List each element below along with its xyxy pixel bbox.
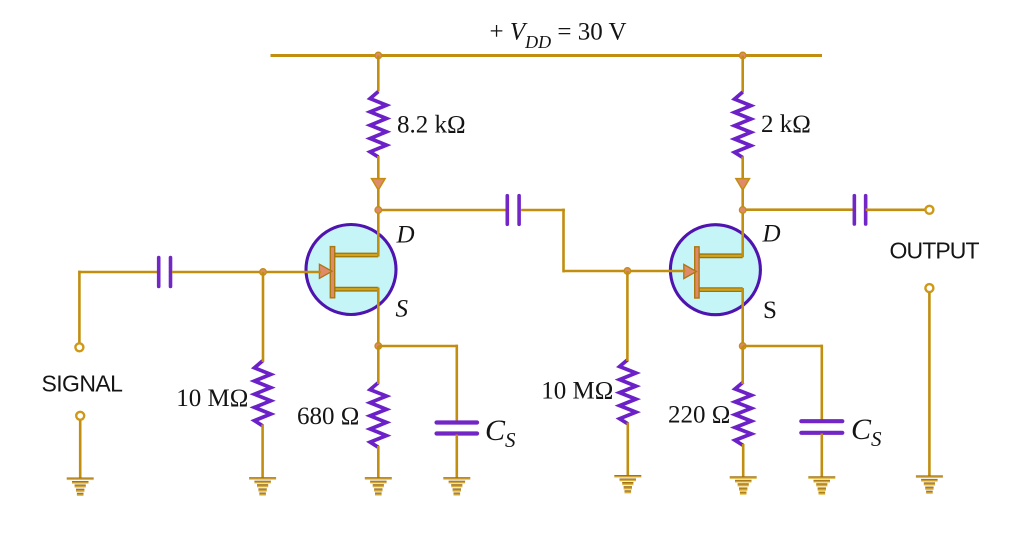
ground: signal xyxy=(67,478,94,497)
wire: gate node to R2 xyxy=(262,272,265,362)
Q1 gate bar xyxy=(330,247,334,298)
arrow: drain current into Q1 xyxy=(372,179,386,190)
Q2 gate arrow xyxy=(684,264,697,278)
Q2 source lead xyxy=(699,287,742,292)
wire: C1 to gate node xyxy=(172,271,263,274)
ground: R5 xyxy=(614,475,641,494)
wire: Q1 source down xyxy=(377,288,380,347)
Q1 source lead xyxy=(335,287,378,292)
transistor Q1 body xyxy=(306,225,396,315)
node: gate junction stage 2 xyxy=(624,268,631,275)
svg-text:2 kΩ: 2 kΩ xyxy=(761,111,811,138)
wire: source node to R3 xyxy=(377,346,380,384)
ground: R6 xyxy=(730,476,757,495)
wire: arrow to drain node xyxy=(377,188,380,210)
wire: source node to R6 xyxy=(741,346,744,384)
node: gate junction stage 1 xyxy=(260,269,267,276)
wire: CS1 branch down xyxy=(455,345,458,421)
svg-text:+ VDD = 30 V: + VDD = 30 V xyxy=(490,19,627,52)
svg-text:D: D xyxy=(396,222,415,249)
ground: R2 xyxy=(249,477,276,496)
resistor R6 220 Ohm source stage 2 xyxy=(735,382,751,445)
resistor R5 10 MOhm gate stage 2 xyxy=(620,360,636,424)
svg-text:680 Ω: 680 Ω xyxy=(297,403,359,430)
capacitor C4 output coupling xyxy=(853,196,857,224)
node: rail junction stage 2 xyxy=(739,52,746,59)
wire: R1 to arrow xyxy=(377,156,380,179)
wire: CS2 to ground xyxy=(820,434,823,478)
terminal: output bottom xyxy=(925,284,933,292)
transistor Q2 body xyxy=(670,225,760,315)
wire: input corner horizontal xyxy=(78,271,157,274)
wire: drain node to output cap xyxy=(743,208,853,211)
wire: drain node to coupling cap C2 xyxy=(378,209,505,212)
wire: C4 to output terminal xyxy=(866,209,925,212)
wire: CS1 to ground xyxy=(455,435,458,479)
wire: corner to gate node stage 2 xyxy=(564,270,628,273)
svg-text:10 MΩ: 10 MΩ xyxy=(541,377,613,404)
wire: Q2 source down xyxy=(741,288,744,346)
wire: gate node to Q2 gate xyxy=(627,270,685,273)
wire: R5 to ground xyxy=(626,423,629,477)
terminal: signal input top xyxy=(75,343,83,351)
node: drain junction dot Q2 xyxy=(739,207,746,214)
wire: R2 to ground xyxy=(261,425,264,479)
wire: drain node to Q1 drain xyxy=(377,210,380,257)
svg-text:OUTPUT: OUTPUT xyxy=(890,238,980,264)
wire: rail to R1 xyxy=(377,56,380,92)
wire: CS2 branch down xyxy=(820,345,823,420)
ground: CS2 xyxy=(808,476,835,495)
wire: source node to CS2 xyxy=(743,345,822,348)
svg-text:S: S xyxy=(396,296,409,323)
wire: output bottom to ground xyxy=(928,293,931,476)
resistor R1 8.2 kOhm xyxy=(370,92,386,158)
wire: gate node to Q1 gate xyxy=(263,271,321,274)
capacitor CS1 source bypass xyxy=(437,420,478,424)
svg-text:D: D xyxy=(762,221,781,248)
ground: R3 xyxy=(365,477,392,496)
Q1 drain lead xyxy=(335,253,378,258)
wire: corner down to gate level xyxy=(562,209,565,273)
wire: source node to CS1 xyxy=(378,345,457,348)
wire: input vertical xyxy=(78,271,81,343)
wire: R3 to ground xyxy=(377,446,380,478)
node: source junction Q1 xyxy=(375,343,382,350)
terminal: output top xyxy=(925,206,933,214)
svg-text:220 Ω: 220 Ω xyxy=(668,402,730,429)
wire: signal bottom to ground xyxy=(79,421,82,479)
capacitor C2 interstage coupling xyxy=(505,196,509,225)
terminal: signal input bottom xyxy=(76,412,84,420)
resistor R4 2 kOhm xyxy=(735,92,751,158)
wire: rail to R4 xyxy=(741,56,744,93)
wire: drain node to Q2 drain xyxy=(741,210,744,257)
ground: output xyxy=(916,475,943,494)
capacitor C1 input coupling xyxy=(157,258,161,287)
node: drain junction dot Q1 xyxy=(375,207,382,214)
svg-text:S: S xyxy=(763,297,777,324)
node: rail junction stage 1 xyxy=(375,52,382,59)
wire: R6 to ground xyxy=(742,444,745,477)
resistor R2 10 MOhm gate stage 1 xyxy=(254,361,270,426)
svg-text:8.2 kΩ: 8.2 kΩ xyxy=(397,111,466,138)
Q2 gate bar xyxy=(695,247,699,298)
svg-text:CS: CS xyxy=(851,413,882,451)
svg-text:10 MΩ: 10 MΩ xyxy=(176,385,248,412)
svg-text:CS: CS xyxy=(485,414,516,452)
arrow: drain current into Q2 xyxy=(736,179,750,190)
wire: +VDD power rail xyxy=(271,54,823,57)
wire: arrow to drain node stage 2 xyxy=(741,188,744,210)
svg-text:SIGNAL: SIGNAL xyxy=(42,370,124,396)
resistor R3 680 Ohm source stage 1 xyxy=(370,383,386,448)
Q2 drain lead xyxy=(699,253,742,258)
node: source junction Q2 xyxy=(739,343,746,350)
ground: CS1 xyxy=(443,477,470,496)
wire: R4 to arrow xyxy=(741,157,744,180)
wire: C2 to corner xyxy=(521,209,565,212)
Q1 gate arrow xyxy=(319,264,332,278)
capacitor CS2 source bypass xyxy=(801,419,842,423)
wire: gate node to R5 xyxy=(626,271,629,361)
